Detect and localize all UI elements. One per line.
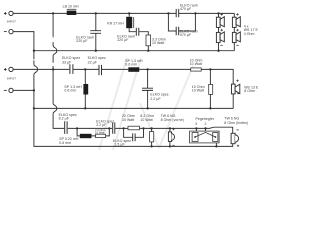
svg-text:10 Watt: 10 Watt — [122, 118, 134, 122]
svg-text:0.6 mm: 0.6 mm — [125, 62, 137, 66]
svg-text:INPUT: INPUT — [7, 77, 16, 81]
svg-text:LB 10 mH: LB 10 mH — [63, 5, 79, 9]
svg-text:10 Watt: 10 Watt — [95, 130, 104, 134]
svg-text:8 Ohm: 8 Ohm — [244, 89, 255, 93]
svg-text:8 Ohm (hinten): 8 Ohm (hinten) — [224, 121, 248, 125]
svg-text:33 µF: 33 µF — [62, 61, 71, 65]
svg-text:1.5 µF: 1.5 µF — [114, 143, 124, 147]
svg-text:KN 27 mH: KN 27 mH — [107, 21, 124, 25]
svg-text:220 µF: 220 µF — [117, 38, 128, 42]
svg-text:INPUT: INPUT — [7, 20, 16, 24]
svg-text:10 Watt: 10 Watt — [152, 41, 164, 45]
svg-text:220 µF: 220 µF — [76, 39, 87, 43]
svg-text:3: 3 — [195, 122, 197, 126]
svg-text:10 Watt: 10 Watt — [140, 118, 152, 122]
svg-text:10 Watt: 10 Watt — [190, 62, 202, 66]
svg-text:2.2 µF: 2.2 µF — [96, 123, 106, 127]
svg-text:0.6 mm: 0.6 mm — [59, 141, 71, 145]
svg-text:8.2 µF: 8.2 µF — [59, 117, 69, 121]
svg-text:2.2 µF: 2.2 µF — [150, 97, 160, 101]
svg-text:2: 2 — [205, 122, 207, 126]
svg-text:ELKO spez: ELKO spez — [62, 56, 80, 60]
svg-text:ELKO spez: ELKO spez — [88, 56, 106, 60]
svg-text:0.6 mm: 0.6 mm — [64, 89, 76, 93]
svg-text:22 µF: 22 µF — [88, 61, 97, 65]
svg-text:Pegelregler: Pegelregler — [196, 117, 215, 121]
svg-text:4 Ohm: 4 Ohm — [244, 32, 255, 36]
svg-text:8 Ohm (vorne): 8 Ohm (vorne) — [161, 118, 184, 122]
svg-text:470 µF: 470 µF — [180, 33, 191, 37]
svg-text:470 µF: 470 µF — [180, 7, 191, 11]
svg-text:10 Watt: 10 Watt — [192, 88, 204, 92]
